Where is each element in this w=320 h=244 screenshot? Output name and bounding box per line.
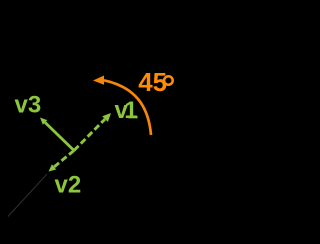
degree ring (164, 76, 173, 85)
rotation arc (orange curved arrow) (104, 80, 151, 135)
arrowhead of rotation arc (93, 76, 104, 85)
vector v3 (solid green arrow, up-left) (40, 118, 74, 151)
svg-text:v3: v3 (15, 92, 42, 119)
foot bar of digit 1 (128, 116, 137, 118)
svg-text:1: 1 (124, 97, 137, 124)
faint extension line from origin to lower-left (8, 174, 47, 217)
vector v2 (dashed green arrow, down-left) (49, 151, 75, 172)
svg-text:45: 45 (138, 67, 167, 97)
svg-text:v2: v2 (55, 171, 82, 198)
vector v1 (dashed green arrow, up-right) (74, 113, 111, 151)
